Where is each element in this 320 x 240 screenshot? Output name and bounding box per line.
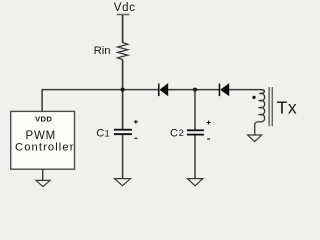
ground under transformer <box>248 135 262 142</box>
wire bus left to PWM controller <box>42 90 158 112</box>
diode D2 cathode bar <box>219 84 221 97</box>
capacitor C2 top plate <box>187 129 204 131</box>
wire Vdc to Rin <box>122 15 124 43</box>
capacitor C1 minus sign <box>135 137 138 139</box>
capacitor C2 bottom plate <box>187 134 204 136</box>
Vdc terminal bar <box>117 14 129 16</box>
wire Rin to C1 <box>122 59 124 129</box>
resistor Rin <box>118 43 128 60</box>
transformer Tx primary winding <box>255 93 265 135</box>
capacitor C1 plus sign <box>134 120 138 124</box>
svg-text:Tx: Tx <box>277 98 298 118</box>
transformer Tx core line 1 <box>268 87 270 126</box>
capacitor C1 top plate <box>114 129 132 131</box>
node junction dot at C2 <box>193 88 197 92</box>
svg-text:C: C <box>170 127 178 139</box>
capacitor C2 minus sign <box>207 138 210 140</box>
svg-text:Controller: Controller <box>15 141 75 153</box>
capacitor C1 bottom plate <box>114 133 132 135</box>
svg-text:C: C <box>96 128 104 140</box>
ground under C2 <box>187 179 202 186</box>
svg-text:Rin: Rin <box>94 45 111 57</box>
PWM controller box U1 <box>11 111 75 169</box>
svg-text:Vdc: Vdc <box>114 2 136 14</box>
svg-text:2: 2 <box>179 128 184 138</box>
wire PWM controller to ground <box>42 169 44 180</box>
svg-text:PWM: PWM <box>26 130 57 142</box>
wire D1 to D2 <box>168 89 219 91</box>
ground under C1 <box>114 179 130 186</box>
capacitor C2 plus sign <box>207 121 211 125</box>
diode D1 <box>160 83 169 96</box>
diode D1 cathode bar <box>158 84 160 97</box>
node junction dot at Rin/C1 <box>121 88 125 92</box>
diode D2 <box>220 83 229 96</box>
transformer Tx phase dot <box>252 96 255 99</box>
svg-text:VDD: VDD <box>35 114 52 123</box>
ground under PWM controller <box>36 180 50 186</box>
wire bus to C2 <box>194 90 196 130</box>
transformer Tx core line 2 <box>271 87 273 126</box>
wire C2 to ground <box>194 136 196 179</box>
svg-text:1: 1 <box>105 129 110 139</box>
wire D2 to transformer <box>229 90 264 94</box>
wire C1 to ground <box>122 135 124 179</box>
